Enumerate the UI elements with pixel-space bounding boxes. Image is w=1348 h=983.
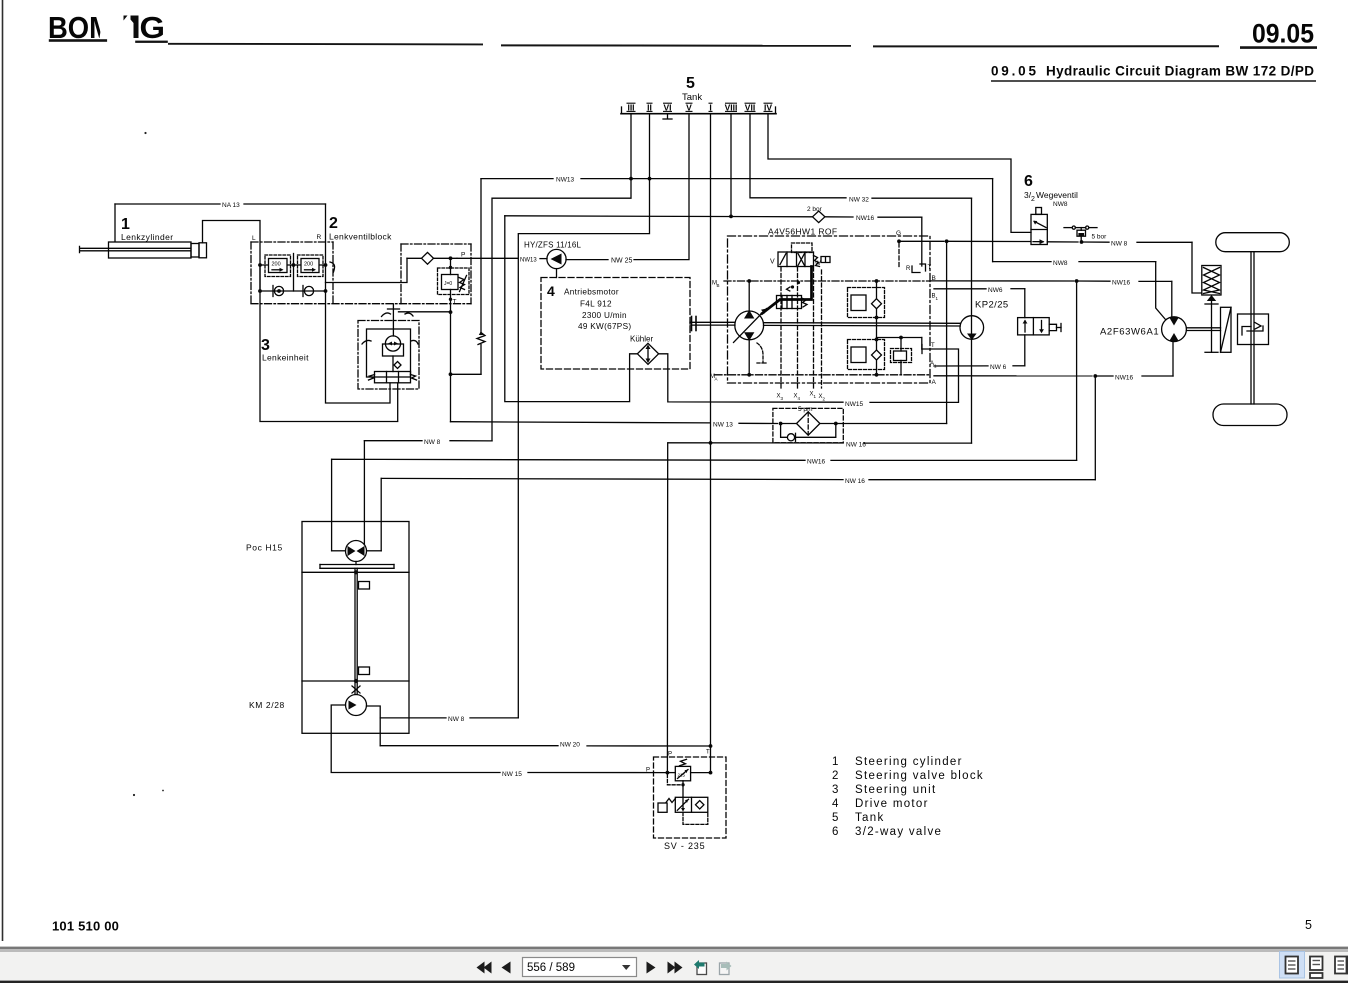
svg-text:G: G: [140, 10, 166, 45]
svg-text:SV - 235: SV - 235: [664, 841, 705, 851]
Poc H15 pump: [346, 541, 367, 562]
A line east to A2F: [934, 375, 1092, 377]
svg-text:Lenkventilblock: Lenkventilblock: [329, 232, 392, 242]
5 bar pilot: [1064, 227, 1072, 229]
svg-text:P: P: [668, 752, 672, 758]
svg-text:NW 25: NW 25: [611, 258, 633, 265]
svg-text:T: T: [706, 750, 710, 756]
svg-text:Kühler: Kühler: [630, 335, 653, 344]
svg-text:49 KW(67PS): 49 KW(67PS): [578, 322, 631, 331]
3/2 way valve 6: [1031, 214, 1047, 244]
svg-text:Antriebsmotor: Antriebsmotor: [564, 288, 619, 297]
svg-text:2 bor: 2 bor: [807, 206, 823, 213]
HY/ZFS pump: [547, 249, 566, 268]
NW16 charge line A-side long: [381, 478, 843, 479]
page left edge line: [2, 0, 4, 941]
svg-text:2300 U/min: 2300 U/min: [582, 311, 627, 320]
svg-text:Tank: Tank: [682, 92, 702, 103]
svg-text:NW 16: NW 16: [846, 441, 866, 448]
specks: [144, 132, 146, 134]
MB line: [715, 281, 930, 375]
svg-text:5: 5: [686, 75, 695, 92]
node III junction: [629, 177, 633, 181]
svg-text:B: B: [932, 275, 936, 282]
A4V pump circle: [735, 311, 764, 340]
svg-text:5: 5: [832, 812, 838, 824]
steering: NA13 line: [115, 203, 220, 205]
svg-text:NW 32: NW 32: [849, 197, 869, 204]
wheels and axle: [1216, 233, 1290, 252]
tank 5 bar: [621, 113, 776, 115]
R T brackets: [912, 266, 920, 273]
svg-text:A2F63W6A1: A2F63W6A1: [1100, 327, 1159, 338]
KP2/25 pump: [960, 316, 984, 340]
svg-text:5 μm: 5 μm: [798, 406, 813, 413]
X pilot dashed lines: [781, 243, 899, 388]
svg-text:F4L 912: F4L 912: [580, 300, 612, 309]
svg-text:5: 5: [1305, 918, 1312, 932]
shaft coupling engine: [691, 317, 693, 331]
svg-text:R: R: [317, 234, 322, 241]
svg-text:556 / 589: 556 / 589: [527, 962, 575, 974]
tank VI vent: [667, 114, 669, 119]
svg-text:Steering cylinder: Steering cylinder: [855, 756, 963, 768]
5um filter: [773, 408, 843, 442]
svg-text:B: B: [717, 283, 720, 288]
wire cylinder L to steering unit: [203, 221, 398, 422]
servo: [777, 296, 802, 309]
svg-text:NW6: NW6: [988, 287, 1003, 294]
NW8-2 line to A2F: [992, 179, 994, 262]
svg-text:A: A: [932, 379, 937, 386]
svg-text:NW 16: NW 16: [845, 478, 865, 485]
svg-text:NW 8: NW 8: [448, 716, 465, 723]
svg-text:200: 200: [304, 262, 313, 268]
svg-text:W: W: [815, 261, 821, 267]
svg-text:NW16: NW16: [807, 459, 825, 466]
svg-text:Lenkeinheit: Lenkeinheit: [262, 353, 309, 363]
wire tank V suction NW25: [634, 114, 689, 260]
BOMAG logo: [48, 8, 168, 48]
NW13 lower run: [450, 374, 452, 421]
svg-text:NW8: NW8: [1053, 201, 1068, 208]
NW8 line III trunk to Poc pump: [450, 440, 492, 442]
control valve: [778, 252, 814, 267]
svg-text:Tank: Tank: [855, 812, 885, 824]
svg-text:T: T: [453, 299, 457, 306]
svg-text:Hydraulic Circuit Diagram BW 1: Hydraulic Circuit Diagram BW 172 D/PD: [1046, 64, 1314, 79]
svg-text:V: V: [770, 259, 775, 266]
svg-text:NW 15: NW 15: [502, 771, 522, 778]
NW6 loop KP2/25: [934, 288, 986, 290]
B line east to A2F: [930, 280, 1074, 282]
wire Kuehler left to VIII trunk: [505, 216, 638, 402]
svg-text:NW 8: NW 8: [424, 439, 441, 446]
wire NW16 return to SV: [864, 442, 972, 444]
svg-text:NW 8: NW 8: [1111, 241, 1128, 248]
steering unit top link: [399, 311, 451, 313]
svg-text:3: 3: [261, 337, 270, 354]
R port hook: [330, 262, 335, 272]
shock valve 200 row: [260, 264, 326, 266]
svg-text:09.05: 09.05: [991, 64, 1036, 79]
svg-text:200: 200: [272, 262, 281, 268]
nav buttons: [477, 962, 683, 974]
A2F motor: [1162, 317, 1187, 342]
differential: [1238, 314, 1269, 345]
svg-text:L: L: [252, 235, 256, 242]
svg-text:2: 2: [1031, 196, 1035, 203]
wire cylinder R line: [326, 204, 391, 403]
wire KM right: [367, 706, 381, 746]
svg-text:5 bor: 5 bor: [1092, 234, 1108, 241]
svg-text:Drive motor: Drive motor: [855, 798, 929, 810]
wire tank IV to 3/2 valve: [768, 114, 1031, 233]
SV-235 assembly: [654, 757, 727, 838]
svg-text:4: 4: [832, 798, 839, 810]
steering cylinder 1: [109, 242, 192, 258]
svg-text:P: P: [461, 252, 465, 259]
svg-text:NW13: NW13: [556, 177, 574, 184]
svg-text:NW 13: NW 13: [713, 422, 733, 429]
svg-text:HY/ZFS 11/16L: HY/ZFS 11/16L: [524, 241, 581, 250]
P to R link: [326, 258, 408, 282]
wire tank VII / NW32: [750, 114, 846, 198]
A4V56 pump block: [728, 236, 931, 383]
NW16 charge line B-side long: [332, 459, 805, 460]
svg-text:T: T: [928, 265, 932, 271]
svg-text:Steering valve block: Steering valve block: [855, 770, 984, 782]
svg-text:215: 215: [678, 773, 686, 778]
P line with check valve: [407, 257, 422, 259]
shuttle clusters: [848, 288, 912, 370]
steering unit 3: [358, 321, 419, 390]
svg-text:2: 2: [832, 770, 838, 782]
svg-text:NW16: NW16: [1115, 375, 1133, 382]
svg-text:Steering unit: Steering unit: [855, 784, 936, 796]
svg-text:NW 20: NW 20: [560, 742, 580, 749]
KM 2/28 pump: [346, 695, 367, 716]
svg-text:3/2-way valve: 3/2-way valve: [855, 826, 942, 838]
svg-text:1: 1: [121, 216, 130, 233]
thick command line: [762, 267, 812, 314]
svg-text:T: T: [931, 343, 935, 349]
wire NW20: [380, 745, 558, 747]
svg-text:NW16: NW16: [1112, 280, 1130, 287]
roman numerals: [627, 103, 772, 113]
svg-text:R: R: [906, 266, 911, 272]
svg-text:3: 3: [832, 784, 838, 796]
engine box 4: [541, 278, 690, 370]
svg-text:J=0: J=0: [444, 281, 452, 287]
svg-text:NW8: NW8: [1053, 260, 1068, 267]
check valve row: [260, 290, 326, 292]
svg-text:A4V56HW1 ROF: A4V56HW1 ROF: [768, 227, 838, 237]
svg-text:6: 6: [832, 826, 838, 838]
gearbox: [1221, 307, 1232, 352]
G port line: [897, 239, 901, 243]
steering relief valve: [438, 268, 470, 295]
svg-text:Lenkzylinder: Lenkzylinder: [121, 232, 174, 242]
wire NW13 top line: [481, 178, 553, 180]
header rules: [168, 44, 1317, 48]
T line down from relief: [450, 258, 452, 274]
svg-text:4: 4: [547, 283, 555, 299]
svg-text:G: G: [896, 230, 901, 237]
svg-text:1: 1: [832, 756, 838, 768]
NW13 trunk with throttle: [480, 179, 482, 335]
brake spring box: [1202, 266, 1221, 296]
svg-text:101 510 00: 101 510 00: [52, 919, 119, 934]
shaft: [354, 568, 356, 694]
svg-text:2: 2: [329, 215, 338, 232]
2bar check diamond: [813, 211, 825, 223]
svg-text:KM 2/28: KM 2/28: [249, 700, 285, 710]
page layout icons right: [1280, 952, 1305, 979]
wire tank I line: [710, 114, 712, 773]
svg-text:P: P: [646, 768, 650, 774]
svg-text:KP2/25: KP2/25: [975, 300, 1009, 311]
svg-text:NW 6: NW 6: [990, 364, 1007, 371]
wire NW8 KM to II trunk: [380, 717, 446, 719]
svg-text:NW16: NW16: [856, 215, 874, 222]
view history icons: [697, 963, 707, 975]
svg-text:Poc H15: Poc H15: [246, 543, 283, 553]
wire tank III return: [492, 114, 631, 441]
wire tank VIII / NW16 2bar line: [730, 114, 732, 217]
Poc H15 / KM 2/28 block: [302, 522, 409, 734]
wire KM left / NW15: [331, 705, 500, 773]
wire Kuehler right / NW15 to T port: [659, 354, 843, 402]
svg-text:NA 13: NA 13: [222, 202, 240, 209]
svg-text:A: A: [715, 377, 718, 382]
svg-text:6: 6: [1024, 173, 1033, 190]
steering valve block 2 dashdot boxes: [251, 242, 471, 304]
svg-text:NW13: NW13: [520, 258, 537, 264]
Kuehler cooler: [637, 343, 658, 364]
svg-text:Wegeventil: Wegeventil: [1036, 190, 1078, 200]
svg-text:09.05: 09.05: [1252, 19, 1314, 49]
wire tank II return: [518, 114, 649, 718]
svg-text:NW15: NW15: [845, 401, 863, 408]
